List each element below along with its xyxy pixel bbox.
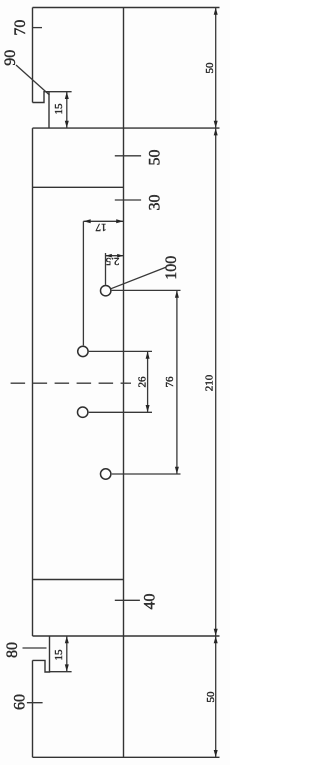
svg-text:210: 210	[203, 374, 215, 391]
svg-text:15: 15	[53, 103, 65, 115]
svg-text:30: 30	[147, 195, 164, 211]
svg-text:26: 26	[137, 376, 149, 388]
svg-text:50: 50	[147, 150, 164, 166]
svg-text:50: 50	[205, 691, 217, 703]
svg-text:2.5: 2.5	[105, 255, 119, 267]
svg-text:90: 90	[2, 50, 19, 66]
svg-text:50: 50	[204, 62, 216, 74]
svg-text:80: 80	[4, 642, 21, 658]
svg-text:70: 70	[12, 20, 29, 36]
svg-text:40: 40	[142, 594, 159, 610]
svg-text:17: 17	[95, 221, 107, 233]
svg-text:15: 15	[53, 649, 65, 661]
svg-text:100: 100	[163, 256, 180, 280]
svg-text:76: 76	[164, 376, 176, 388]
svg-text:60: 60	[12, 694, 29, 710]
